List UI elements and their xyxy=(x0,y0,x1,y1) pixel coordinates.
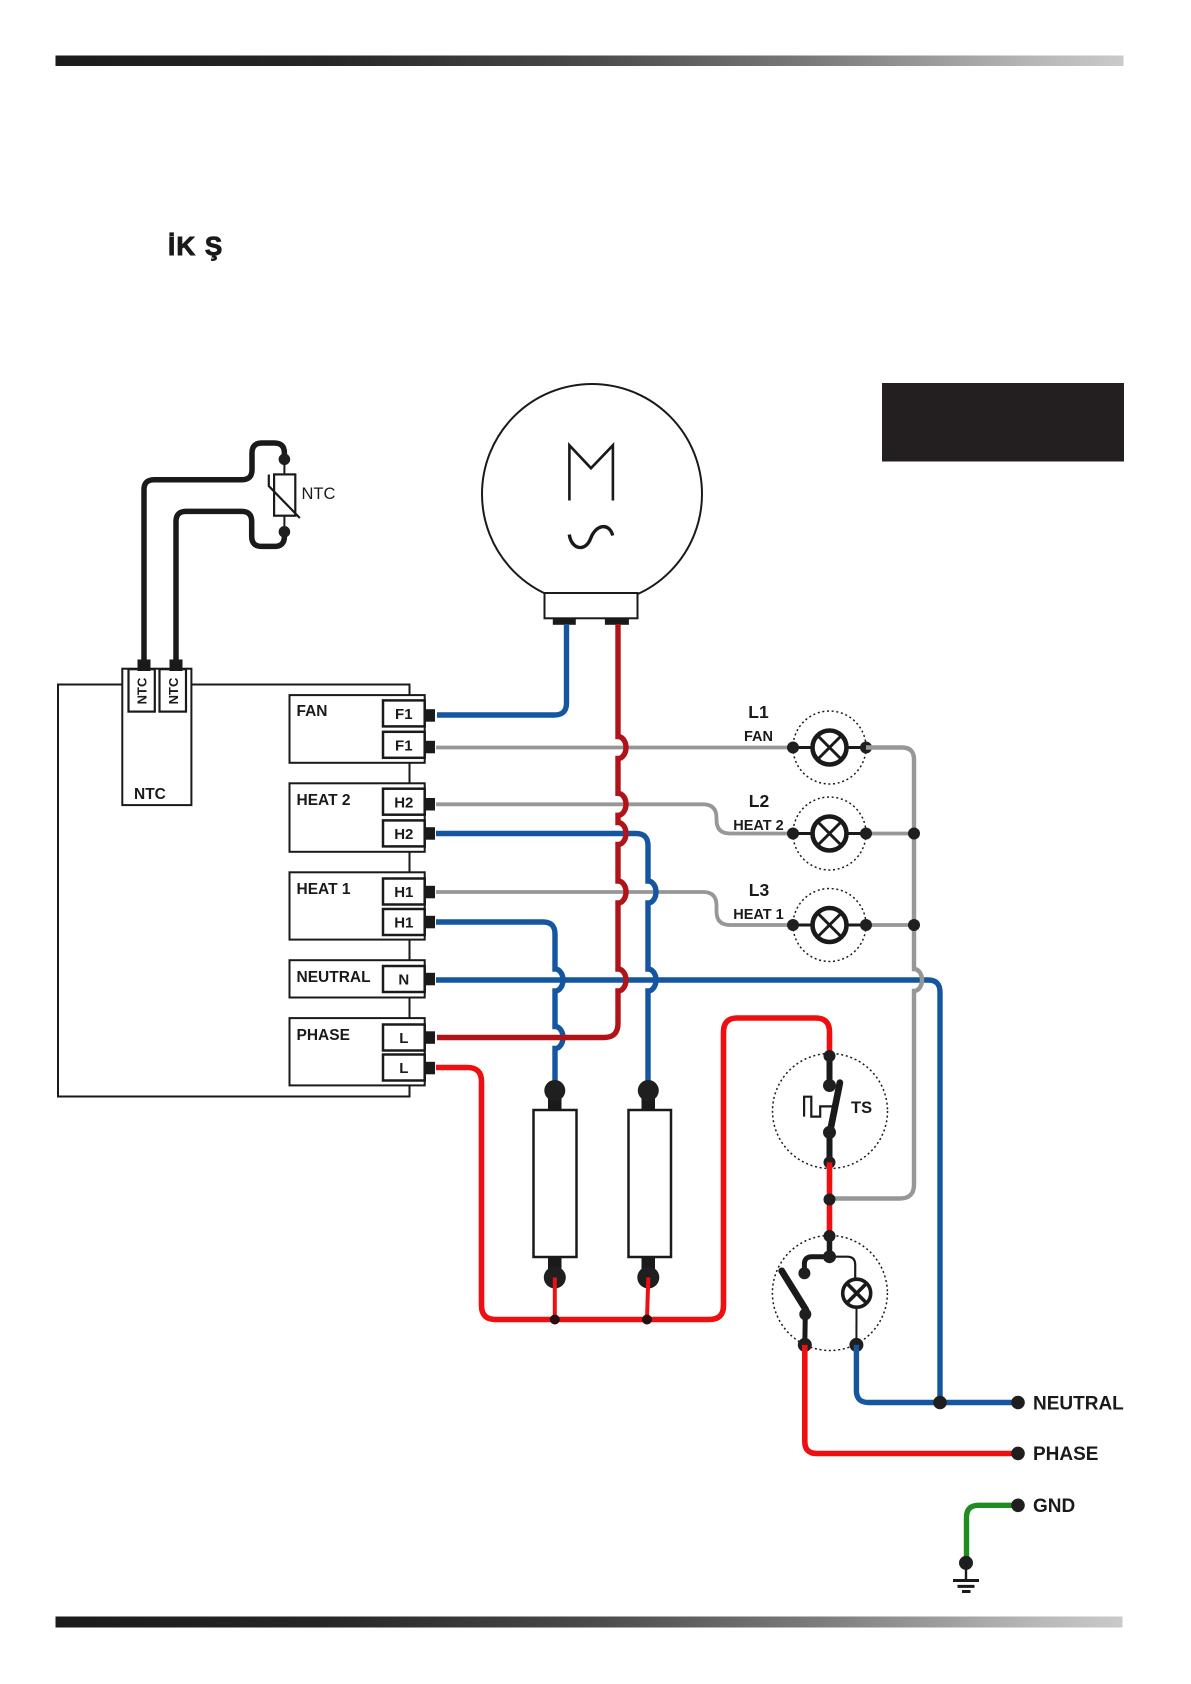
junction dot gray bus L3 xyxy=(908,919,920,931)
svg-text:NEUTRAL: NEUTRAL xyxy=(297,969,371,986)
nub H1 upper xyxy=(425,886,435,899)
motor nub left xyxy=(553,618,576,625)
terminal L upper xyxy=(383,1025,425,1051)
wire gray L2 link xyxy=(866,832,914,836)
lamp L3 xyxy=(793,889,866,962)
terminal H1 lower xyxy=(383,909,425,935)
TS contact dots xyxy=(824,1050,836,1062)
junction dot TS lamp bus xyxy=(824,1194,836,1206)
heater 1 lead red xyxy=(553,1278,557,1320)
svg-text:L3: L3 xyxy=(749,880,770,900)
svg-text:NTC: NTC xyxy=(166,677,181,704)
nub L lower xyxy=(425,1062,435,1075)
svg-text:H1: H1 xyxy=(394,884,413,901)
TS lead lines xyxy=(827,1056,833,1086)
svg-text:NTC: NTC xyxy=(302,485,336,503)
wire F1 gray to lamp L1 xyxy=(436,746,793,750)
svg-text:L: L xyxy=(399,1060,408,1077)
wire ground green xyxy=(967,1505,1019,1557)
NEUTRAL group box xyxy=(290,960,425,997)
HEAT 1 group box xyxy=(290,872,425,939)
PHASE group box xyxy=(290,1018,425,1085)
wire gray lamp bus xyxy=(834,748,922,1199)
svg-text:İK Ş: İK Ş xyxy=(168,231,223,261)
heater 2 lead red xyxy=(647,1278,648,1320)
svg-text:FAN: FAN xyxy=(744,729,773,745)
wire H2 blue to heater 2 xyxy=(436,834,656,1089)
switch contact dots xyxy=(824,1230,836,1242)
wire neutral blue from switch lamp xyxy=(856,1345,1018,1403)
wire red TS to switch xyxy=(827,1162,833,1236)
terminal H2 lower xyxy=(383,820,425,846)
svg-text:NTC: NTC xyxy=(134,786,166,803)
heater 1 xyxy=(548,1093,562,1110)
svg-text:H2: H2 xyxy=(394,794,413,811)
wire phase dark red motor xyxy=(437,624,626,1038)
nub H2 lower xyxy=(425,827,435,840)
svg-text:F1: F1 xyxy=(395,706,413,723)
junction dot heater 1 phase xyxy=(550,1315,560,1325)
wire NTC lead 1 (black) xyxy=(144,443,284,660)
HEAT 2 group box xyxy=(290,783,425,852)
wire NTC lead 2 (black) xyxy=(176,511,284,660)
svg-text:H2: H2 xyxy=(394,826,413,843)
svg-text:FAN: FAN xyxy=(297,703,328,720)
nub H1 lower xyxy=(425,916,435,929)
redaction box xyxy=(882,383,1124,462)
node NEUTRAL xyxy=(1011,1396,1025,1410)
terminal N xyxy=(383,966,425,992)
wire gray L3 link xyxy=(866,923,914,927)
svg-text:F1: F1 xyxy=(395,737,413,754)
wire H1 gray to lamp L3 xyxy=(436,892,793,925)
svg-text:HEAT 2: HEAT 2 xyxy=(733,818,784,834)
svg-text:NEUTRAL: NEUTRAL xyxy=(1033,1394,1124,1415)
wire neutral blue bus xyxy=(436,980,940,1403)
top rule xyxy=(56,56,1124,67)
lamp L2 xyxy=(793,797,866,870)
junction dot neutral xyxy=(933,1396,947,1410)
wire H2 gray to lamp L2 xyxy=(436,804,793,833)
thermistor NTC xyxy=(283,465,285,474)
svg-text:HEAT 1: HEAT 1 xyxy=(733,907,784,923)
svg-text:N: N xyxy=(398,972,409,989)
NTC terminal 2 xyxy=(160,669,187,711)
NTC connector block xyxy=(122,669,191,805)
terminal H2 upper xyxy=(383,789,425,815)
svg-text:H1: H1 xyxy=(394,915,413,932)
terminal F1 lower xyxy=(383,732,425,758)
svg-text:L1: L1 xyxy=(748,702,769,722)
wire phase red from switch xyxy=(805,1345,1018,1454)
terminal F1 upper xyxy=(383,700,425,726)
ground symbol xyxy=(959,1556,973,1570)
switch blade xyxy=(782,1271,806,1310)
thermal switch TS xyxy=(773,1054,888,1169)
svg-text:NTC: NTC xyxy=(135,677,150,704)
nub F1 upper xyxy=(425,709,435,722)
wire F1 blue to motor xyxy=(437,624,567,715)
svg-text:PHASE: PHASE xyxy=(1033,1444,1098,1465)
nub F1 lower xyxy=(425,741,435,754)
terminal H1 upper xyxy=(383,879,425,905)
node PHASE xyxy=(1011,1447,1025,1461)
svg-text:HEAT 2: HEAT 2 xyxy=(297,792,351,809)
wire H1 blue to heater 1 xyxy=(436,922,563,1088)
NTC terminal nub 2 xyxy=(170,660,183,672)
wire phase bright red loop xyxy=(436,1018,830,1320)
lamp L1 xyxy=(793,711,866,784)
svg-text:TS: TS xyxy=(851,1099,872,1117)
FAN group box xyxy=(290,695,425,763)
svg-text:L: L xyxy=(399,1030,408,1047)
TS blade xyxy=(830,1083,840,1133)
NTC terminal 1 xyxy=(129,669,155,711)
junction dot gray bus L2 xyxy=(908,828,920,840)
bottom rule xyxy=(56,1617,1123,1628)
TS pulse symbol xyxy=(804,1097,833,1117)
svg-text:HEAT 1: HEAT 1 xyxy=(297,881,351,898)
nub H2 upper xyxy=(425,798,435,811)
nub L upper xyxy=(425,1031,435,1044)
terminal L lower xyxy=(383,1055,425,1081)
junction dot heater 2 phase xyxy=(642,1315,652,1325)
svg-text:PHASE: PHASE xyxy=(297,1027,350,1044)
motor M xyxy=(482,384,702,604)
NTC terminal nub 1 xyxy=(138,660,151,672)
svg-text:GND: GND xyxy=(1033,1496,1075,1517)
switch lamp xyxy=(843,1279,871,1307)
control box PCB xyxy=(58,685,410,1097)
main switch xyxy=(772,1236,887,1351)
motor nub right xyxy=(605,618,629,625)
svg-text:L2: L2 xyxy=(749,791,770,811)
node GND xyxy=(1011,1499,1025,1513)
heater 2 xyxy=(642,1093,656,1110)
nub N xyxy=(425,973,435,986)
